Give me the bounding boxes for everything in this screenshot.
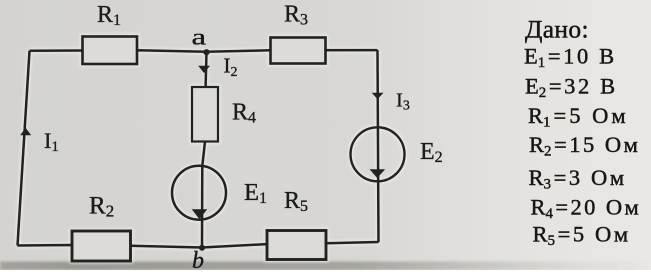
wire left	[18, 51, 30, 246]
wire right	[378, 50, 379, 242]
node a	[203, 49, 209, 55]
halo glow under ink	[18, 37, 405, 262]
emf source E1	[172, 166, 226, 220]
svg-text:R3=3 Ом: R3=3 Ом	[529, 165, 627, 193]
svg-text:a: a	[192, 25, 207, 50]
wire middle branch lower	[202, 142, 205, 248]
svg-text:R5=5 Ом: R5=5 Ом	[533, 222, 631, 250]
resistor R5	[267, 231, 326, 260]
resistor R2	[72, 231, 131, 261]
arrow I2	[198, 66, 210, 73]
wire bottom	[18, 242, 379, 248]
node b	[199, 245, 205, 251]
wire top	[30, 50, 378, 52]
resistor R4	[192, 87, 218, 142]
arrow I1	[20, 128, 31, 136]
bottom shadow band	[0, 262, 651, 271]
arrow I3	[372, 93, 384, 100]
svg-text:Дано:: Дано:	[525, 15, 589, 44]
emf source E2	[351, 127, 405, 181]
svg-text:b: b	[192, 248, 204, 270]
arrow E1	[192, 209, 207, 219]
given data text block	[524, 15, 641, 250]
wire middle branch upper	[204, 52, 207, 87]
resistor R1	[83, 37, 138, 65]
arrow E2	[370, 169, 386, 178]
resistor R3	[271, 38, 326, 64]
